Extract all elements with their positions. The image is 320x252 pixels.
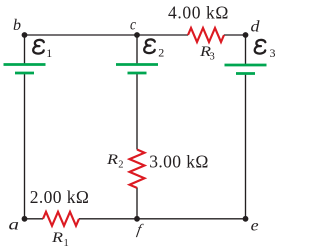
wire middle R2 to f — [136, 188, 138, 219]
emf symbol E2 — [144, 39, 155, 53]
wire left b to battery E1 — [24, 35, 26, 65]
emf symbol E3 — [255, 40, 266, 54]
node f — [134, 216, 140, 222]
svg-text:b: b — [13, 17, 21, 34]
svg-text:1: 1 — [64, 238, 69, 249]
wire left battery E1 to a — [24, 73, 26, 219]
svg-text:3.00 kΩ: 3.00 kΩ — [149, 152, 209, 172]
svg-text:3: 3 — [270, 46, 276, 60]
node a — [22, 216, 28, 222]
node e — [243, 216, 249, 222]
svg-text:R: R — [106, 152, 118, 168]
resistor R1 zigzag — [43, 212, 79, 226]
battery E3 long plate — [225, 64, 267, 67]
node d — [243, 32, 249, 38]
emf symbol E1 — [33, 40, 44, 54]
svg-text:2: 2 — [158, 46, 164, 60]
battery E2 short plate — [128, 72, 147, 75]
svg-text:2: 2 — [118, 160, 123, 171]
battery E1 long plate — [4, 63, 46, 66]
svg-text:a: a — [9, 217, 20, 234]
battery E1 short plate — [15, 72, 34, 75]
node b — [22, 32, 28, 38]
svg-text:d: d — [251, 18, 261, 35]
wire bottom R1 to f to e — [79, 218, 246, 220]
battery E3 short plate — [236, 72, 255, 75]
svg-text:c: c — [130, 17, 136, 34]
svg-text:e: e — [251, 218, 259, 235]
wire bottom a to R1 — [25, 218, 44, 220]
wire middle c to battery E2 — [136, 35, 138, 65]
resistor R3 zigzag — [188, 28, 224, 42]
wire top b-c-R3 — [25, 34, 189, 36]
wire top R3-d — [224, 34, 246, 36]
wire middle battery E2 to R2 — [136, 73, 138, 150]
svg-text:4.00 kΩ: 4.00 kΩ — [168, 3, 229, 23]
node c — [134, 32, 140, 38]
svg-text:1: 1 — [46, 46, 52, 60]
svg-text:R: R — [51, 230, 63, 246]
wire right d to battery E3 — [245, 35, 247, 65]
svg-text:3: 3 — [210, 52, 215, 63]
wire right battery E3 to e — [245, 73, 247, 219]
battery E2 long plate — [116, 63, 158, 66]
node label f — [136, 222, 145, 238]
resistor R2 zigzag — [130, 150, 145, 188]
svg-text:2.00 kΩ: 2.00 kΩ — [30, 187, 90, 207]
